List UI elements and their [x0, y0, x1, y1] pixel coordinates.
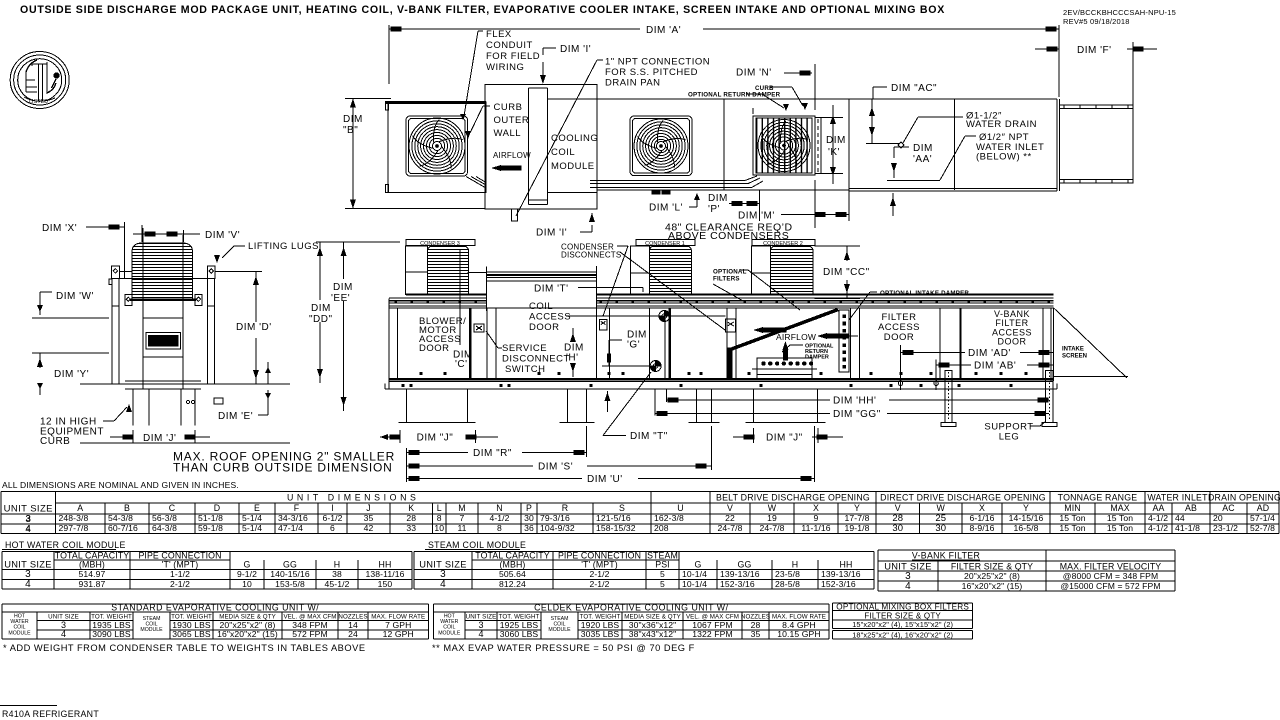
svg-text:51-1/8: 51-1/8: [198, 513, 223, 523]
svg-text:FILTER SIZE & QTY: FILTER SIZE & QTY: [951, 561, 1033, 571]
svg-text:DIM 'S': DIM 'S': [538, 462, 573, 473]
svg-text:30: 30: [935, 523, 946, 534]
svg-text:UNIT SIZE: UNIT SIZE: [4, 560, 51, 570]
end view: DIM V dimension: [133, 225, 240, 242]
end view: access door with handle: [143, 318, 183, 357]
svg-text:M: M: [458, 503, 465, 513]
svg-text:4-1/2: 4-1/2: [489, 513, 509, 523]
svg-text:DOOR: DOOR: [884, 332, 915, 343]
side view: filter access door label: [878, 312, 920, 343]
svg-text:F: F: [294, 503, 300, 513]
svg-text:COIL: COIL: [529, 301, 553, 312]
svg-text:SERVICE: SERVICE: [502, 343, 547, 354]
svg-text:AD: AD: [1257, 503, 1269, 513]
top view: water drain label: [898, 111, 1037, 148]
svg-text:W: W: [768, 503, 777, 513]
top view: drain pan lines right: [590, 176, 849, 194]
svg-text:W: W: [937, 503, 946, 513]
svg-text:OPTIONAL INTAKE DAMPER: OPTIONAL INTAKE DAMPER: [880, 290, 969, 297]
svg-text:BELT DRIVE DISCHARGE OPENING: BELT DRIVE DISCHARGE OPENING: [716, 493, 870, 503]
top view: DIM F dimension: [1035, 42, 1157, 108]
svg-text:4: 4: [61, 629, 66, 639]
end view: DIM D dimension: [236, 271, 272, 384]
svg-text:DOOR: DOOR: [998, 337, 1027, 347]
svg-text:15 Ton: 15 Ton: [1059, 513, 1085, 523]
svg-text:'C': 'C': [455, 359, 468, 370]
svg-text:38"x43"x12": 38"x43"x12": [629, 629, 677, 639]
svg-text:GG: GG: [283, 560, 297, 570]
svg-text:3090 LBS: 3090 LBS: [92, 629, 131, 639]
svg-text:DIM 'D': DIM 'D': [236, 322, 272, 333]
svg-text:AIRFLOW: AIRFLOW: [776, 332, 816, 342]
svg-text:5: 5: [660, 579, 665, 589]
svg-text:33: 33: [406, 523, 416, 533]
svg-text:505.64: 505.64: [499, 569, 526, 579]
svg-text:54-3/8: 54-3/8: [108, 513, 133, 523]
svg-text:DIM 'E': DIM 'E': [218, 411, 253, 422]
svg-text:152-3/16: 152-3/16: [821, 579, 856, 589]
svg-text:20"x25"x2" (8): 20"x25"x2" (8): [964, 571, 1020, 581]
side view: DIM T bottom label with leader: [603, 372, 668, 442]
side view: cabinet outline: [385, 299, 1057, 390]
svg-text:C: C: [169, 503, 176, 513]
svg-text:FOR FIELD: FOR FIELD: [486, 51, 540, 62]
svg-text:UNIT DIMENSIONS: UNIT DIMENSIONS: [287, 493, 420, 503]
svg-text:ALL DIMENSIONS ARE NOMINAL AND: ALL DIMENSIONS ARE NOMINAL AND GIVEN IN …: [2, 480, 239, 490]
side view: DIM C label: [453, 250, 473, 370]
side view: support legs: [941, 371, 1057, 427]
svg-text:18"x25"x2" (4), 16"x20"x2" (2): 18"x25"x2" (4), 16"x20"x2" (2): [852, 631, 953, 640]
svg-text:10-1/4: 10-1/4: [682, 569, 707, 579]
svg-text:6-1/2: 6-1/2: [322, 513, 342, 523]
svg-text:DIM 'I': DIM 'I': [536, 228, 567, 239]
svg-text:@15000 CFM = 572 FPM: @15000 CFM = 572 FPM: [1060, 581, 1160, 591]
svg-text:@8000 CFM = 348 FPM: @8000 CFM = 348 FPM: [1063, 571, 1158, 581]
svg-text:30: 30: [892, 523, 903, 534]
end view: cabinet body: [109, 228, 215, 389]
svg-text:MODULE: MODULE: [8, 630, 31, 636]
svg-text:DIM "GG": DIM "GG": [833, 409, 881, 420]
svg-text:3065 LBS: 3065 LBS: [172, 629, 211, 639]
table: v-bank filter: [878, 550, 1175, 592]
svg-text:STEAM COIL MODULE: STEAM COIL MODULE: [428, 540, 526, 550]
svg-text:INTAKE: INTAKE: [1062, 347, 1084, 353]
top view: DIM L label: [649, 193, 700, 214]
side view: optional return damper small label: [782, 344, 834, 361]
svg-text:DIRECT DRIVE DISCHARGE OPENING: DIRECT DRIVE DISCHARGE OPENING: [880, 493, 1046, 503]
svg-text:V: V: [895, 503, 901, 513]
top view: DIM B dimension: [343, 99, 485, 209]
svg-text:59-1/8: 59-1/8: [198, 523, 223, 533]
svg-text:28-5/8: 28-5/8: [775, 579, 800, 589]
svg-text:HH: HH: [379, 560, 392, 570]
svg-text:DIM 'X': DIM 'X': [42, 223, 77, 234]
svg-text:1322 FPM: 1322 FPM: [692, 629, 732, 639]
svg-text:WATER INLET: WATER INLET: [1147, 493, 1208, 503]
top view: DIM N dimension: [736, 64, 815, 114]
svg-text:4: 4: [25, 579, 31, 590]
end view: 12 in high curb label: [40, 404, 132, 447]
svg-text:DIM 'F': DIM 'F': [1077, 45, 1112, 56]
svg-text:DIM 'I': DIM 'I': [560, 44, 591, 55]
svg-text:DISCONNECTS: DISCONNECTS: [561, 251, 621, 260]
top view: left condenser bay outline: [385, 102, 486, 193]
top view: 48 inch clearance note: [665, 222, 793, 243]
top view: DIM M dimension: [738, 180, 849, 228]
svg-text:WATER DRAIN: WATER DRAIN: [966, 119, 1037, 130]
svg-text:U: U: [677, 503, 683, 513]
top view: water inlet label: [887, 132, 1044, 181]
svg-text:CELDEK EVAPORATIVE COOLING UNI: CELDEK EVAPORATIVE COOLING UNIT W/: [534, 602, 728, 612]
svg-text:23-1/2: 23-1/2: [1213, 523, 1238, 533]
svg-text:OPTIONAL MIXING BOX FILTERS: OPTIONAL MIXING BOX FILTERS: [836, 602, 969, 611]
svg-text:CURB: CURB: [40, 436, 70, 447]
side view: optional intake damper label and strip: [839, 290, 969, 372]
svg-text:AC: AC: [1222, 503, 1235, 513]
svg-text:162-3/8: 162-3/8: [654, 513, 684, 523]
side view: DIM H dimension: [564, 328, 584, 377]
svg-text:17-7/8: 17-7/8: [845, 513, 870, 523]
top view: drain pan note with leader: [516, 57, 710, 217]
svg-text:60-7/16: 60-7/16: [108, 523, 138, 533]
top view: cooling coil module label: [551, 133, 598, 172]
svg-text:15"x20"x2" (4), 15"x15"x2" (2): 15"x20"x2" (4), 15"x15"x2" (2): [852, 620, 953, 629]
svg-text:24-7/8: 24-7/8: [718, 523, 743, 533]
svg-text:I: I: [331, 503, 334, 513]
svg-text:9: 9: [814, 513, 819, 523]
svg-text:Y: Y: [1023, 503, 1029, 513]
svg-text:DIM: DIM: [343, 114, 363, 125]
svg-text:DIM "J": DIM "J": [417, 433, 454, 444]
DIM EE dimension: [316, 242, 400, 411]
svg-text:'G': 'G': [627, 340, 640, 351]
svg-text:5: 5: [660, 569, 665, 579]
end view: DIM Y dimension: [32, 353, 109, 395]
side view: coil access door label: [529, 301, 726, 333]
svg-text:B: B: [124, 503, 130, 513]
svg-text:104-9/32: 104-9/32: [540, 523, 575, 533]
svg-text:X: X: [813, 503, 819, 513]
top view: curb outer wall label: [465, 102, 529, 139]
svg-text:36: 36: [524, 523, 534, 533]
top view: DIM I top dimension: [540, 44, 591, 84]
svg-text:FILTERS: FILTERS: [713, 276, 740, 283]
side view: DIM HH dimension: [666, 396, 1049, 407]
top view: right bay bottom double line: [849, 189, 1057, 191]
svg-text:G: G: [244, 560, 251, 570]
svg-text:56-3/8: 56-3/8: [152, 513, 177, 523]
svg-text:4-1/2: 4-1/2: [1148, 513, 1168, 523]
top view: optional return damper label: [688, 92, 789, 112]
svg-text:'T' (MPT): 'T' (MPT): [162, 560, 199, 570]
svg-text:CONDUIT: CONDUIT: [486, 40, 533, 51]
svg-text:44: 44: [1175, 513, 1185, 523]
svg-text:R410A REFRIGERANT: R410A REFRIGERANT: [2, 709, 99, 719]
svg-text:DRAIN OPENING: DRAIN OPENING: [1208, 493, 1280, 503]
side view: intake screen: [1054, 308, 1129, 378]
svg-text:138-11/16: 138-11/16: [366, 569, 405, 579]
svg-text:4: 4: [25, 524, 31, 535]
side view: DIM U dimension: [406, 426, 814, 485]
svg-text:MODULE: MODULE: [438, 630, 461, 636]
svg-text:47-1/4: 47-1/4: [278, 523, 303, 533]
svg-text:DIM: DIM: [913, 143, 933, 154]
svg-text:158-15/32: 158-15/32: [596, 523, 636, 533]
svg-text:MODULE: MODULE: [548, 627, 571, 633]
svg-text:3060 LBS: 3060 LBS: [500, 629, 539, 639]
side view: DIM R dimension: [406, 426, 586, 459]
side view: blower motor access door label: [419, 316, 466, 354]
svg-text:34-3/16: 34-3/16: [278, 513, 308, 523]
svg-text:FILTER SIZE & QTY: FILTER SIZE & QTY: [864, 611, 941, 620]
table: celdek evaporative cooling unit: [434, 602, 829, 639]
svg-text:'P': 'P': [708, 204, 720, 215]
svg-text:DIM 'V': DIM 'V': [205, 230, 240, 241]
svg-text:V: V: [727, 503, 733, 513]
svg-text:8: 8: [497, 523, 502, 533]
max roof opening note: [173, 450, 395, 475]
svg-text:15 Ton: 15 Ton: [1059, 523, 1085, 533]
svg-text:AB: AB: [1185, 503, 1197, 513]
svg-text:UNIT SIZE: UNIT SIZE: [884, 561, 931, 571]
svg-text:140-15/16: 140-15/16: [270, 569, 310, 579]
svg-text:H: H: [334, 560, 340, 570]
top view: DIM K dimension: [821, 105, 846, 184]
svg-text:R: R: [562, 503, 568, 513]
side view: v-bank filter access door label: [992, 309, 1032, 347]
svg-text:OUTSIDE SIDE DISCHARGE MOD PAC: OUTSIDE SIDE DISCHARGE MOD PACKAGE UNIT,…: [20, 4, 945, 16]
svg-text:E: E: [254, 503, 260, 513]
svg-text:AIRFLOW: AIRFLOW: [493, 151, 531, 160]
side view: airflow arrows in mixing box: [753, 327, 858, 342]
top view: condenser fan 2: [630, 116, 692, 176]
side view: DIM CC dimension: [815, 246, 870, 299]
side view: roof curb legs below base: [398, 389, 825, 423]
svg-text:S: S: [619, 503, 625, 513]
svg-text:G: G: [695, 560, 702, 570]
side view: service disconnect switch symbol: [474, 324, 484, 332]
top view: discharge duct: [1057, 99, 1133, 191]
svg-text:812.24: 812.24: [499, 579, 526, 589]
svg-text:16-5/8: 16-5/8: [1014, 523, 1039, 533]
svg-text:STANDARD EVAPORATIVE COOLING U: STANDARD EVAPORATIVE COOLING UNIT W/: [111, 602, 319, 612]
svg-text:4: 4: [905, 581, 911, 592]
side view: raised platform over coil module: [487, 266, 597, 311]
svg-text:121-5/16: 121-5/16: [596, 513, 631, 523]
svg-text:35: 35: [364, 513, 374, 523]
svg-text:ACCESS: ACCESS: [529, 312, 571, 323]
svg-text:DIM 'U': DIM 'U': [587, 474, 623, 485]
svg-text:10-1/4: 10-1/4: [682, 579, 707, 589]
svg-text:HOT WATER COIL MODULE: HOT WATER COIL MODULE: [5, 540, 126, 550]
svg-text:DIM: DIM: [708, 193, 728, 204]
svg-text:19: 19: [767, 513, 777, 523]
svg-text:41-1/8: 41-1/8: [1175, 523, 1200, 533]
svg-text:DIM 'W': DIM 'W': [56, 291, 94, 302]
table: optional mixing box filters: [833, 602, 973, 639]
svg-text:'K': 'K': [828, 147, 840, 158]
ETL listed logo: [10, 52, 69, 109]
side view: support leg label: [984, 421, 1046, 443]
top view: DIM P dimension: [708, 190, 760, 221]
svg-text:DIM 'AB': DIM 'AB': [974, 361, 1016, 372]
top view: airflow label and arrow: [491, 151, 531, 171]
table: hot water coil module: [2, 540, 412, 590]
svg-text:DIM: DIM: [333, 282, 353, 293]
svg-text:FILTER: FILTER: [995, 318, 1028, 328]
svg-text:150: 150: [378, 579, 393, 589]
end view: equipment curb: [80, 381, 290, 443]
top view: condenser fan 1: [406, 116, 468, 176]
svg-text:V-BANK FILTER: V-BANK FILTER: [912, 551, 980, 561]
side view: DIM AB dimension: [934, 360, 1053, 391]
svg-text:OUTER: OUTER: [494, 115, 530, 126]
svg-text:30: 30: [524, 513, 534, 523]
svg-text:DIM "CC": DIM "CC": [823, 267, 870, 278]
svg-text:PSI: PSI: [655, 560, 669, 570]
svg-text:X: X: [979, 503, 985, 513]
svg-text:(MBH): (MBH): [79, 560, 105, 570]
end view: lower lifting lugs: [125, 295, 202, 306]
side view: perforated intake box: [752, 358, 817, 379]
side view: roof lines: [389, 295, 1054, 309]
svg-text:H: H: [792, 560, 798, 570]
end view: DIM E dimension: [218, 362, 271, 422]
svg-text:24: 24: [348, 629, 358, 639]
svg-text:* ADD WEIGHT FROM CONDENSER TA: * ADD WEIGHT FROM CONDENSER TABLE TO WEI…: [3, 643, 366, 653]
top view: drain pan slope left: [466, 177, 486, 189]
svg-text:D: D: [214, 503, 220, 513]
svg-text:152-3/16: 152-3/16: [720, 579, 755, 589]
svg-text:MODULE: MODULE: [140, 627, 163, 633]
top view: curb label: [755, 85, 808, 110]
svg-text:7: 7: [460, 513, 465, 523]
svg-text:DIM 'AD': DIM 'AD': [968, 348, 1011, 359]
svg-text:THAN CURB OUTSIDE DIMENSION: THAN CURB OUTSIDE DIMENSION: [173, 461, 393, 475]
side view: DIM G dimension: [602, 330, 650, 367]
top view: cooling coil module box: [485, 84, 597, 209]
svg-text:8-9/16: 8-9/16: [970, 523, 995, 533]
svg-text:5-1/4: 5-1/4: [242, 513, 262, 523]
svg-text:10.15 GPH: 10.15 GPH: [777, 629, 820, 639]
svg-text:208: 208: [654, 523, 669, 533]
svg-text:Y: Y: [854, 503, 860, 513]
svg-text:P: P: [526, 503, 532, 513]
side view: condenser 2 on roof: [752, 240, 816, 295]
svg-text:A: A: [77, 503, 83, 513]
svg-text:COIL: COIL: [551, 147, 575, 158]
side view: up arrow mixing box: [783, 341, 789, 360]
svg-text:DIM 'Y': DIM 'Y': [54, 369, 89, 380]
svg-text:SCREEN: SCREEN: [1062, 354, 1087, 360]
top view: DIM AA dimension: [890, 143, 933, 216]
svg-text:572 FPM: 572 FPM: [292, 629, 328, 639]
svg-text:AA: AA: [1153, 503, 1165, 513]
side view: DIM J right dimension: [733, 428, 843, 444]
svg-text:DIM "AC": DIM "AC": [891, 83, 937, 94]
svg-text:LIFTING LUGS: LIFTING LUGS: [248, 241, 319, 252]
svg-text:16"x20"x2" (15): 16"x20"x2" (15): [217, 629, 278, 639]
svg-text:DRAIN PAN: DRAIN PAN: [605, 78, 661, 89]
svg-text:14-15/16: 14-15/16: [1009, 513, 1044, 523]
svg-text:2EV/BCCKBHCCCSAH-NPU-15: 2EV/BCCKBHCCCSAH-NPU-15: [1063, 8, 1176, 17]
svg-text:8: 8: [437, 513, 442, 523]
svg-text:10: 10: [242, 579, 252, 589]
side view: disconnect boxes on partitions: [599, 311, 735, 372]
side view: optional filters label: [713, 269, 800, 311]
side view: DIM GG dimension: [655, 409, 1049, 420]
svg-text:"B": "B": [343, 125, 358, 136]
svg-text:16"x20"x2" (15): 16"x20"x2" (15): [962, 581, 1023, 591]
svg-text:52-7/8: 52-7/8: [1250, 523, 1275, 533]
svg-text:DIM: DIM: [311, 303, 331, 314]
svg-text:UNIT SIZE: UNIT SIZE: [419, 560, 466, 570]
top view: flex conduit label with leader: [460, 29, 540, 120]
side view: DIM T top label: [534, 284, 643, 295]
svg-text:79-3/16: 79-3/16: [540, 513, 570, 523]
svg-text:LEG: LEG: [999, 432, 1020, 443]
svg-text:DOOR: DOOR: [419, 343, 450, 354]
svg-text:WIRING: WIRING: [486, 62, 524, 73]
side view: extension lines below base: [605, 389, 667, 416]
side view: interior partitions: [398, 308, 1043, 379]
side view: DIM AD dimension: [898, 345, 1053, 390]
svg-text:DIM 'A': DIM 'A': [646, 25, 681, 36]
svg-text:DIM 'T': DIM 'T': [534, 284, 569, 295]
svg-text:24-7/8: 24-7/8: [760, 523, 785, 533]
drawing number: [1063, 8, 1176, 26]
svg-text:35: 35: [751, 629, 761, 639]
svg-text:2-1/2: 2-1/2: [589, 579, 609, 589]
svg-text:'H': 'H': [566, 353, 579, 364]
svg-text:DIM 'L': DIM 'L': [649, 203, 683, 214]
svg-text:(BELOW) **: (BELOW) **: [976, 152, 1032, 163]
end view: upper lifting lugs: [112, 266, 262, 279]
side view: DIM S dimension: [406, 426, 711, 473]
svg-text:514.97: 514.97: [79, 569, 106, 579]
top view: fan bays outline: [597, 99, 1057, 221]
svg-text:L: L: [437, 503, 442, 513]
svg-text:139-13/16: 139-13/16: [821, 569, 861, 579]
svg-text:DIM 'N': DIM 'N': [736, 68, 772, 79]
svg-text:DIM 'M': DIM 'M': [738, 211, 775, 222]
svg-text:N: N: [496, 503, 502, 513]
end view: condenser coil block: [130, 243, 196, 300]
side view: condenser 1 on roof: [631, 240, 695, 295]
svg-text:REV#5 09/18/2018: REV#5 09/18/2018: [1063, 17, 1130, 26]
svg-text:42: 42: [364, 523, 374, 533]
side view: mixing box damper blade: [727, 310, 838, 380]
svg-text:153-5/8: 153-5/8: [275, 579, 305, 589]
svg-text:20: 20: [1213, 513, 1223, 523]
top view: drain stub below module: [512, 209, 518, 221]
svg-text:4: 4: [478, 629, 483, 639]
svg-text:"DD": "DD": [309, 314, 333, 325]
svg-text:J: J: [366, 503, 371, 513]
end view: side stub and drain dots: [186, 398, 223, 404]
svg-text:45-1/2: 45-1/2: [325, 579, 350, 589]
side view: condenser disconnects label and leaders: [561, 243, 725, 331]
top view: DIM A dimension line: [389, 25, 1059, 97]
svg-text:57-1/4: 57-1/4: [1250, 513, 1275, 523]
svg-text:DIM "R": DIM "R": [473, 448, 512, 459]
svg-text:1" NPT CONNECTION: 1" NPT CONNECTION: [605, 57, 710, 68]
svg-text:WALL: WALL: [494, 128, 522, 139]
end view: DIM X dimension: [42, 222, 125, 279]
svg-text:9-1/2: 9-1/2: [237, 569, 257, 579]
svg-text:DIM: DIM: [826, 135, 846, 146]
svg-text:MAX: MAX: [1110, 503, 1129, 513]
